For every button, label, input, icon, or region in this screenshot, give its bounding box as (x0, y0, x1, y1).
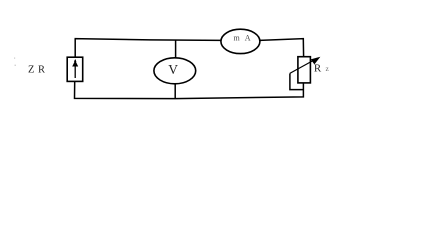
rheostat box R (298, 57, 311, 83)
wire top-right: ammeter to top-right corner, down to rheostat (260, 39, 304, 57)
rheostat wiper arrow (diagonal) (290, 57, 321, 74)
wire bottom loop: left box bottom lead, bottom wire, rheostat bottom lead (75, 82, 304, 99)
svg-text:R: R (314, 63, 322, 75)
wire top-left loop: left box top lead + top wire to ammeter (75, 39, 221, 58)
scan specks (14, 58, 15, 59)
svg-text:V: V (168, 62, 178, 77)
svg-text:z: z (326, 64, 330, 73)
voltmeter V (154, 58, 196, 84)
wire voltmeter bottom lead (174, 83, 176, 98)
wire wiper-to-bottom bracket (290, 74, 303, 90)
source arrow (upward) (72, 59, 78, 78)
milliammeter (221, 29, 260, 53)
source box (regulated supply) (67, 57, 83, 81)
wire voltmeter top lead (175, 40, 177, 58)
svg-text:ZR: ZR (28, 65, 45, 76)
